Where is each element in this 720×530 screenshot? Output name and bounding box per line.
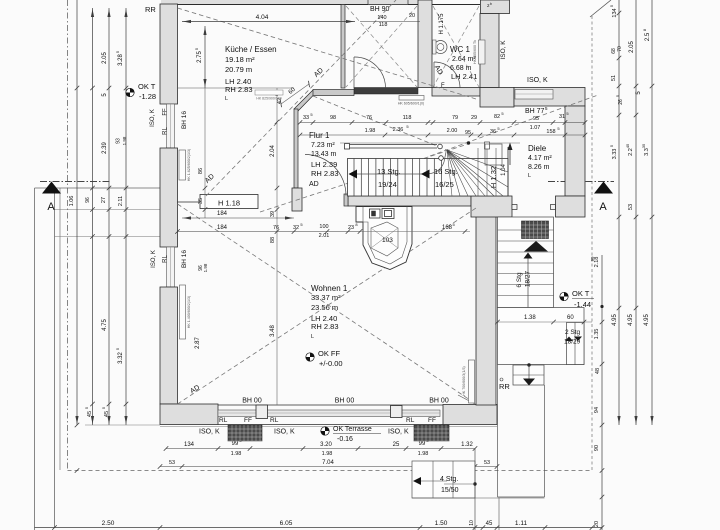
toilet [434,41,447,54]
svg-text:RH 2.83: RH 2.83 [311,169,339,178]
svg-text:HK 1.625/600/2(1/3): HK 1.625/600/2(1/3) [187,149,191,181]
stair walk line [353,152,446,174]
svg-text:51: 51 [611,75,617,81]
svg-text:1.98: 1.98 [322,451,333,457]
svg-text:99: 99 [590,256,595,262]
svg-text:RH 2.83: RH 2.83 [311,322,339,331]
svg-text:A: A [599,201,607,213]
left exterior wall middle segment [160,148,178,247]
bottom wall window band [218,404,443,406]
svg-text:20: 20 [594,521,600,527]
svg-text:1.98: 1.98 [122,136,127,145]
bottom-right corner wall [443,405,497,425]
kitchen top window door swing [368,4,408,6]
svg-text:HK 825/900/100: HK 825/900/100 [256,97,281,101]
svg-text:94: 94 [594,407,600,413]
corridor south wall (dark) [354,88,418,95]
svg-text:8.26 m: 8.26 m [528,164,550,171]
WC diagonal 2 [433,6,479,87]
svg-text:3.32: 3.32 [118,352,124,364]
2-step box [567,323,585,365]
svg-text:48: 48 [595,368,601,374]
WC interior top line [432,4,480,6]
svg-text:53: 53 [169,460,175,466]
svg-text:ISO, K: ISO, K [388,429,409,436]
svg-text:3.28: 3.28 [118,54,124,66]
svg-text:4.95: 4.95 [644,314,650,326]
svg-text:HK 1.400/600/2(1/3): HK 1.400/600/2(1/3) [187,296,191,328]
level marker OK Terrasse [321,427,329,435]
svg-text:+/-0.00: +/-0.00 [319,359,343,368]
svg-text:29: 29 [471,115,477,121]
svg-text:OK T: OK T [572,289,590,298]
svg-text:FF: FF [428,417,436,424]
svg-text:ISO, K: ISO, K [527,77,548,84]
chimney flue box 2 [382,209,394,219]
small dim ticks near 4stg [444,483,475,485]
svg-text:118: 118 [379,22,388,28]
svg-text:45: 45 [486,521,493,527]
stair fan radiating lines [447,150,452,196]
left wall window 1 [167,104,175,148]
svg-text:2.05: 2.05 [102,52,108,64]
svg-text:3.3: 3.3 [644,148,650,156]
svg-text:168: 168 [442,225,453,231]
svg-text:2.5: 2.5 [645,32,651,41]
middle wall band deep part [471,196,512,217]
roof slope diagonal kitchen L1 [178,8,477,99]
svg-text:7.23 m²: 7.23 m² [311,142,335,149]
svg-text:95: 95 [465,130,471,136]
wall below WC [432,88,480,97]
horizontal dim chain y122 [300,122,585,124]
svg-text:33.37 m²: 33.37 m² [311,293,341,302]
svg-text:Küche / Essen: Küche / Essen [225,45,277,54]
svg-text:2.75: 2.75 [197,51,203,63]
kitchen vertical dim 2.75 [204,26,206,88]
4 Stg stair box [412,461,475,498]
svg-text:1.04: 1.04 [501,164,507,176]
svg-text:OK FF: OK FF [318,349,341,358]
svg-text:1.98: 1.98 [365,128,376,134]
svg-text:HK 505/600 Tk: HK 505/600 Tk [473,40,477,64]
svg-text:2.36: 2.36 [393,127,404,133]
stair handrail [349,144,437,146]
Diele northwest wall block [480,88,514,108]
dim line left x126 [125,8,127,425]
WC right wall [480,14,499,88]
bay chamfer wall [294,90,316,112]
vertical line x205 lower [204,88,206,218]
vertical dim column x277 [276,88,278,405]
svg-text:86: 86 [198,168,204,174]
parapet H 1.18 box [200,195,258,209]
WC window right wall [479,40,486,64]
svg-text:AD: AD [309,181,319,188]
stair treads straight flight [353,159,355,197]
lines below 4Stg [474,449,476,530]
Diele top wall [514,88,585,107]
svg-text:16/25: 16/25 [435,180,454,189]
svg-text:Flur 1: Flur 1 [309,131,330,140]
svg-text:25: 25 [393,442,400,448]
svg-text:HK 605/600/1(0): HK 605/600/1(0) [398,102,424,106]
svg-text:1.35: 1.35 [594,329,600,340]
heater Wohnen right HK [469,360,475,403]
svg-text:134: 134 [612,8,618,17]
roof slope diagonal bay to fan [313,96,447,150]
terrain horizontal line y209 [55,209,161,211]
svg-text:LH 2.41: LH 2.41 [451,72,477,81]
kitchen width dim 4.04 [182,21,355,23]
svg-text:OK T: OK T [138,82,156,91]
boundary line left pair [54,188,56,527]
svg-text:118: 118 [403,115,412,121]
svg-text:19.18 m²: 19.18 m² [225,55,255,64]
WC diagonal 1 [433,6,479,87]
svg-text:RL: RL [163,255,169,263]
svg-text:1.98: 1.98 [418,451,429,457]
stair winder treads [477,148,479,196]
svg-text:ISO, K: ISO, K [199,429,220,436]
svg-text:76: 76 [366,115,372,121]
svg-text:ISO, K: ISO, K [274,429,295,436]
exterior stair landing [498,308,585,365]
svg-text:184: 184 [217,211,228,217]
svg-text:2.05: 2.05 [629,41,635,53]
level marker OK FF [306,353,314,361]
svg-text:4.95: 4.95 [612,314,618,326]
bottom wall mullion square 1 [256,405,268,419]
svg-text:31: 31 [559,114,565,120]
bottom chain y466 [160,466,497,468]
Flur-Wohnen door arc [305,155,346,196]
svg-text:134: 134 [184,442,195,448]
svg-text:BH 77: BH 77 [525,108,545,115]
svg-text:L: L [528,173,531,179]
top-right corner pier [481,0,510,14]
svg-text:98: 98 [330,115,336,121]
svg-text:2.50: 2.50 [102,520,115,527]
svg-text:53: 53 [484,460,490,466]
left horizontal extension y425 [85,424,160,426]
svg-text:1.98: 1.98 [203,263,208,272]
dim line left x109 [108,8,110,425]
Diele top step box [485,144,502,165]
svg-text:3.33: 3.33 [612,149,618,160]
svg-text:27: 27 [101,197,107,203]
svg-text:6.05: 6.05 [280,520,293,527]
roof slope diagonal kitchen L2 [206,0,396,196]
Diele right wall [565,106,585,196]
svg-text:2.04: 2.04 [270,145,276,157]
roof overhang dashed outline right [591,16,593,471]
svg-text:A: A [47,201,55,213]
svg-text:RR: RR [145,5,156,14]
section line A-A right [548,181,614,183]
svg-text:1.38: 1.38 [524,315,536,321]
svg-text:140: 140 [377,15,386,21]
heater left wall HK [179,150,186,180]
terrain horizontal line y188 [35,187,161,189]
svg-text:1.32: 1.32 [461,442,473,448]
dim line right x602 [601,255,603,530]
svg-text:RL: RL [406,417,415,424]
dim line right x619 [618,0,620,425]
svg-text:-1.28: -1.28 [139,92,156,101]
svg-text:1.98: 1.98 [231,451,242,457]
svg-text:93: 93 [116,138,122,144]
svg-text:32: 32 [293,225,299,231]
left wall window 2 [167,247,175,287]
svg-text:23: 23 [348,225,354,231]
hatched block right side (stair top) [522,221,549,239]
section marker triangle A right [594,182,613,194]
boundary line far left [34,188,36,530]
heater corridor HK [399,96,424,101]
svg-text:1.06: 1.06 [69,196,75,207]
svg-text:2.11: 2.11 [118,196,124,206]
svg-text:FF: FF [163,108,169,116]
bottom chain y527 [35,527,603,529]
svg-text:BH 16: BH 16 [181,111,188,129]
door opening posts in band [512,205,517,210]
stair direction arrows [349,170,358,179]
svg-text:RL: RL [270,417,279,424]
svg-text:45: 45 [87,411,93,417]
svg-text:15/50: 15/50 [441,487,459,494]
svg-text:H 1.18: H 1.18 [218,199,240,208]
svg-text:60: 60 [567,315,574,321]
downspout box RR [513,365,544,385]
svg-text:L: L [225,96,228,102]
dim 168 inside wohnen [360,231,470,233]
dim line right x636 [635,0,637,425]
left exterior wall upper segment [160,4,178,104]
svg-text:26: 26 [618,99,624,105]
roof overhang corner cut top right [590,0,611,17]
svg-text:20: 20 [409,13,415,19]
heater left wall 2 HK [180,285,186,339]
svg-text:H 1.175: H 1.175 [439,13,445,35]
kitchen south boundary line [178,87,295,89]
svg-text:1.07: 1.07 [530,125,541,131]
left exterior wall lower segment [160,287,178,404]
jamb right of Flur door [344,194,348,206]
chimney bay outline [356,207,412,270]
kitchen east partition wall [341,5,345,89]
dim 184 line 2 + chain [178,231,361,233]
dim line left x77 [76,0,78,425]
WC door arc [434,62,460,88]
svg-text:RH 2.83: RH 2.83 [225,85,253,94]
svg-text:7.04: 7.04 [322,460,334,466]
svg-text:33: 33 [303,115,309,121]
dim line left x92.5 [92,8,94,425]
section marker triangle A left [42,182,61,194]
exterior plaster line under bottom wall [160,426,497,428]
parapet connection line [178,201,201,203]
svg-text:18/27: 18/27 [525,270,532,287]
svg-text:100: 100 [319,224,328,230]
svg-text:36: 36 [490,129,496,135]
level marker OK T -1.28 [126,88,134,96]
chimney hexagon [371,222,398,256]
horizontal dim chain y135 [300,134,585,136]
corridor diagonal [346,6,417,87]
exterior stair upper flight [498,217,554,308]
svg-text:2.01: 2.01 [319,233,330,239]
terrace door leaf [458,395,476,405]
svg-text:BH 00: BH 00 [429,398,449,405]
svg-text:LH 2.39: LH 2.39 [311,160,337,169]
svg-text:45: 45 [104,411,110,417]
WC left wall [418,0,432,88]
roof overhang dashed outline left [67,0,69,471]
svg-text:99: 99 [419,441,426,447]
svg-text:96: 96 [85,197,91,203]
roof overhang dashed outline bottom [68,470,593,472]
chimney flue box 1 [370,209,381,218]
svg-text:BH 90: BH 90 [370,6,390,13]
svg-text:35: 35 [641,143,646,148]
svg-text:1.50: 1.50 [435,520,448,527]
dim line 1.38 / 60 [498,321,593,323]
roof slope diagonal flur L3 [260,144,468,212]
svg-text:L: L [311,334,314,340]
Wohnen diagonal X 1 [178,204,477,404]
band segment right of opening [556,196,586,217]
svg-text:90: 90 [594,445,600,451]
right exterior wall (Wohnen) [476,207,496,405]
svg-text:4.17 m²: 4.17 m² [528,155,552,162]
svg-text:WC 1: WC 1 [450,45,471,54]
svg-text:RL: RL [219,417,228,424]
svg-text:158: 158 [546,129,555,135]
svg-text:20.79 m: 20.79 m [225,65,252,74]
svg-text:2.39: 2.39 [102,142,108,154]
Diele up arrow [509,146,511,165]
svg-text:F: F [441,83,445,89]
Diele top wall window [515,90,553,100]
hatched step block right [414,425,449,441]
svg-text:1.11: 1.11 [515,520,528,527]
dim 184 line 1 [182,217,294,219]
bottom wall mullion square 2 [391,406,403,418]
stair outline [348,159,509,197]
svg-text:95: 95 [533,116,539,122]
svg-text:H 1.32: H 1.32 [489,166,498,188]
svg-text:OK Terrasse: OK Terrasse [333,426,372,433]
svg-text:6 Stg: 6 Stg [516,272,523,288]
svg-text:2.2: 2.2 [628,148,634,156]
svg-text:76: 76 [273,225,279,231]
svg-text:-0.16: -0.16 [337,436,353,443]
svg-text:45: 45 [625,143,630,148]
svg-text:3.48: 3.48 [270,325,276,337]
dim line right x652 [651,0,653,425]
top exterior wall [161,0,418,5]
svg-text:ISO, K: ISO, K [500,40,507,60]
svg-text:99: 99 [232,441,239,447]
svg-text:16 Stg.: 16 Stg. [434,167,458,176]
Flur south pier [292,188,302,211]
terrace edge lines bottom right [497,365,499,498]
svg-text:FF: FF [244,417,252,424]
Wohnen diagonal X 2 [178,208,477,404]
bay top wall [313,90,354,96]
svg-text:Wohnen 1: Wohnen 1 [311,284,348,293]
svg-text:3.20: 3.20 [320,442,332,448]
svg-text:10: 10 [469,520,475,526]
stair up arrow [524,253,533,259]
svg-text:53: 53 [628,204,634,210]
svg-text:ISO, K: ISO, K [150,109,156,127]
level marker OK T -1.44 [560,292,568,300]
svg-text:82: 82 [494,114,500,120]
corridor door arc [354,57,386,88]
section line A-A left [40,181,110,183]
svg-text:35: 35 [198,198,204,204]
svg-text:Diele: Diele [528,144,547,153]
terrain horizontal line y236 [55,236,161,238]
svg-text:4.04: 4.04 [256,14,269,21]
middle wall band (under stairs) left part [348,196,471,206]
svg-text:BH 00: BH 00 [242,398,262,405]
svg-text:103: 103 [382,237,393,244]
svg-text:88: 88 [270,237,276,243]
roof slope diagonal diele L4 [430,95,598,156]
top wall window BH 90 ticks [367,0,369,5]
svg-text:4 Stg.: 4 Stg. [440,476,458,483]
svg-text:2.87: 2.87 [195,337,201,349]
svg-text:79: 79 [452,115,458,121]
svg-text:13.43 m: 13.43 m [311,151,336,158]
svg-text:HK 700/600/3(1/3): HK 700/600/3(1/3) [462,366,466,395]
bottom chain y448 [166,448,475,450]
svg-text:RL: RL [163,127,169,135]
svg-text:ISO, K: ISO, K [151,250,157,268]
svg-text:19/24: 19/24 [378,180,397,189]
svg-text:BH 00: BH 00 [335,398,355,405]
bay left wall [294,109,298,188]
hatched step block left [228,425,262,441]
svg-text:RR: RR [499,382,510,391]
svg-text:4.75: 4.75 [102,319,108,331]
svg-text:13 Stg.: 13 Stg. [377,167,401,176]
svg-text:2 Stg: 2 Stg [565,329,581,336]
bottom-left corner wall [160,404,218,425]
svg-text:b: b [490,2,492,6]
svg-text:BH 16: BH 16 [181,250,188,268]
svg-text:70: 70 [617,46,623,52]
dim line over stairs with dot [340,142,520,144]
black triangle on stair [524,241,548,252]
svg-text:2.00: 2.00 [447,128,458,134]
bay diagonal dim 60 [281,84,309,104]
chimney inner wall line [363,207,407,265]
svg-text:4.95: 4.95 [628,314,634,326]
svg-text:184: 184 [217,225,228,231]
